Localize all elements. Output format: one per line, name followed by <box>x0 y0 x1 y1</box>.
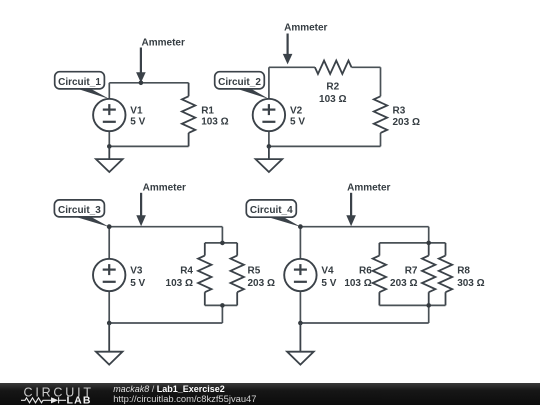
svg-text:Circuit_4: Circuit_4 <box>250 205 293 216</box>
node junction dots C4 <box>298 224 303 229</box>
svg-text:R6: R6 <box>359 265 372 276</box>
svg-text:V2: V2 <box>290 105 303 116</box>
ground C2 <box>256 146 283 172</box>
resistor R3 <box>374 96 387 133</box>
wire top C2 left <box>269 66 315 68</box>
resistor R8 <box>439 256 452 293</box>
ground C1 <box>96 146 123 172</box>
resistor R4 <box>198 256 211 293</box>
svg-text:R7: R7 <box>405 265 418 276</box>
svg-text:http://circuitlab.com/c8kzf55j: http://circuitlab.com/c8kzf55jvau47 <box>113 393 256 404</box>
svg-text:R8: R8 <box>457 265 470 276</box>
svg-text:5 V: 5 V <box>321 278 336 289</box>
svg-text:103 Ω: 103 Ω <box>201 117 228 128</box>
wire top C1 <box>109 82 188 84</box>
svg-text:203 Ω: 203 Ω <box>390 278 417 289</box>
wire R1 leads <box>188 83 190 97</box>
svg-text:Ammeter: Ammeter <box>142 38 185 49</box>
wire bottom C4 <box>300 322 428 324</box>
svg-text:Circuit_2: Circuit_2 <box>218 77 261 88</box>
voltage source V3 <box>93 259 125 291</box>
wire V2 leads <box>268 67 270 99</box>
wire bottom C3 <box>109 322 222 324</box>
wire C3 top bar <box>205 242 237 244</box>
svg-text:5 V: 5 V <box>130 278 145 289</box>
svg-text:Ammeter: Ammeter <box>284 23 327 34</box>
svg-text:Ammeter: Ammeter <box>143 183 186 194</box>
svg-text:V4: V4 <box>321 265 334 276</box>
ammeter annotation C3 <box>140 193 142 217</box>
svg-text:Circuit_3: Circuit_3 <box>58 205 101 216</box>
svg-text:R5: R5 <box>248 265 261 276</box>
svg-text:Circuit_1: Circuit_1 <box>58 77 101 88</box>
svg-text:103 Ω: 103 Ω <box>319 94 346 105</box>
wire top C4 <box>300 226 428 228</box>
resistor R1 <box>182 96 195 133</box>
wire C3 right rail bottom <box>221 305 223 323</box>
svg-text:Ammeter: Ammeter <box>347 183 390 194</box>
wire top C2 right <box>352 66 381 68</box>
wire top C3 <box>109 226 222 228</box>
wire R7 leads <box>428 243 430 256</box>
wire V3 leads <box>108 227 110 259</box>
svg-text:5 V: 5 V <box>290 117 305 128</box>
wire R8 leads <box>445 243 447 256</box>
wire R5 leads <box>236 243 238 256</box>
resistor R5 <box>231 256 244 293</box>
wire C4 right rail top <box>428 227 430 243</box>
node junction dots C3 <box>107 224 112 229</box>
callout Circuit_4 <box>264 216 300 227</box>
resistor R2 (horizontal) <box>315 61 352 74</box>
svg-text:5 V: 5 V <box>130 117 145 128</box>
ammeter annotation C4 <box>350 193 352 217</box>
node junction dot C1 bottom <box>107 144 112 149</box>
wire C4 bottom bar <box>379 304 445 306</box>
svg-text:V1: V1 <box>130 105 143 116</box>
wire bottom C2 <box>269 145 381 147</box>
wire V4 leads <box>299 227 301 259</box>
wire R4 leads <box>204 243 206 256</box>
wire C3 right rail top <box>221 227 223 243</box>
svg-text:R1: R1 <box>201 105 214 116</box>
voltage source V1 <box>93 99 125 131</box>
logo wire-resistor-diode glyph <box>21 397 66 403</box>
wire R6 leads <box>378 243 380 256</box>
callout Circuit_2 <box>234 88 269 99</box>
voltage source V4 <box>284 259 316 291</box>
wire bottom C1 <box>109 145 188 147</box>
ammeter annotation C2 <box>287 34 289 56</box>
resistor R7 <box>422 256 435 293</box>
node junction dot C2 bottom <box>267 144 272 149</box>
voltage source V2 <box>253 99 285 131</box>
ground C3 <box>96 323 123 365</box>
wire C3 bottom bar <box>205 304 237 306</box>
resistor R6 <box>373 256 386 293</box>
svg-text:303 Ω: 303 Ω <box>457 278 484 289</box>
svg-text:203 Ω: 203 Ω <box>393 117 420 128</box>
wire V1 bottom lead <box>108 131 110 146</box>
svg-text:203 Ω: 203 Ω <box>248 278 275 289</box>
svg-text:V3: V3 <box>130 265 143 276</box>
node junction dot C1 top <box>139 81 144 86</box>
wire V1 top lead <box>108 83 110 99</box>
wire C4 right rail bottom <box>428 305 430 323</box>
callout Circuit_1 <box>75 88 110 99</box>
svg-text:R2: R2 <box>326 82 339 93</box>
wire C2 right rail <box>380 67 382 96</box>
svg-text:103 Ω: 103 Ω <box>344 278 371 289</box>
svg-text:103 Ω: 103 Ω <box>166 278 193 289</box>
svg-text:LAB: LAB <box>67 394 92 405</box>
wire C4 top bar <box>379 242 445 244</box>
callout Circuit_3 <box>73 216 110 227</box>
ammeter annotation C1 <box>140 48 142 74</box>
svg-text:R3: R3 <box>393 105 406 116</box>
ground C4 <box>287 323 314 365</box>
svg-text:R4: R4 <box>180 265 193 276</box>
